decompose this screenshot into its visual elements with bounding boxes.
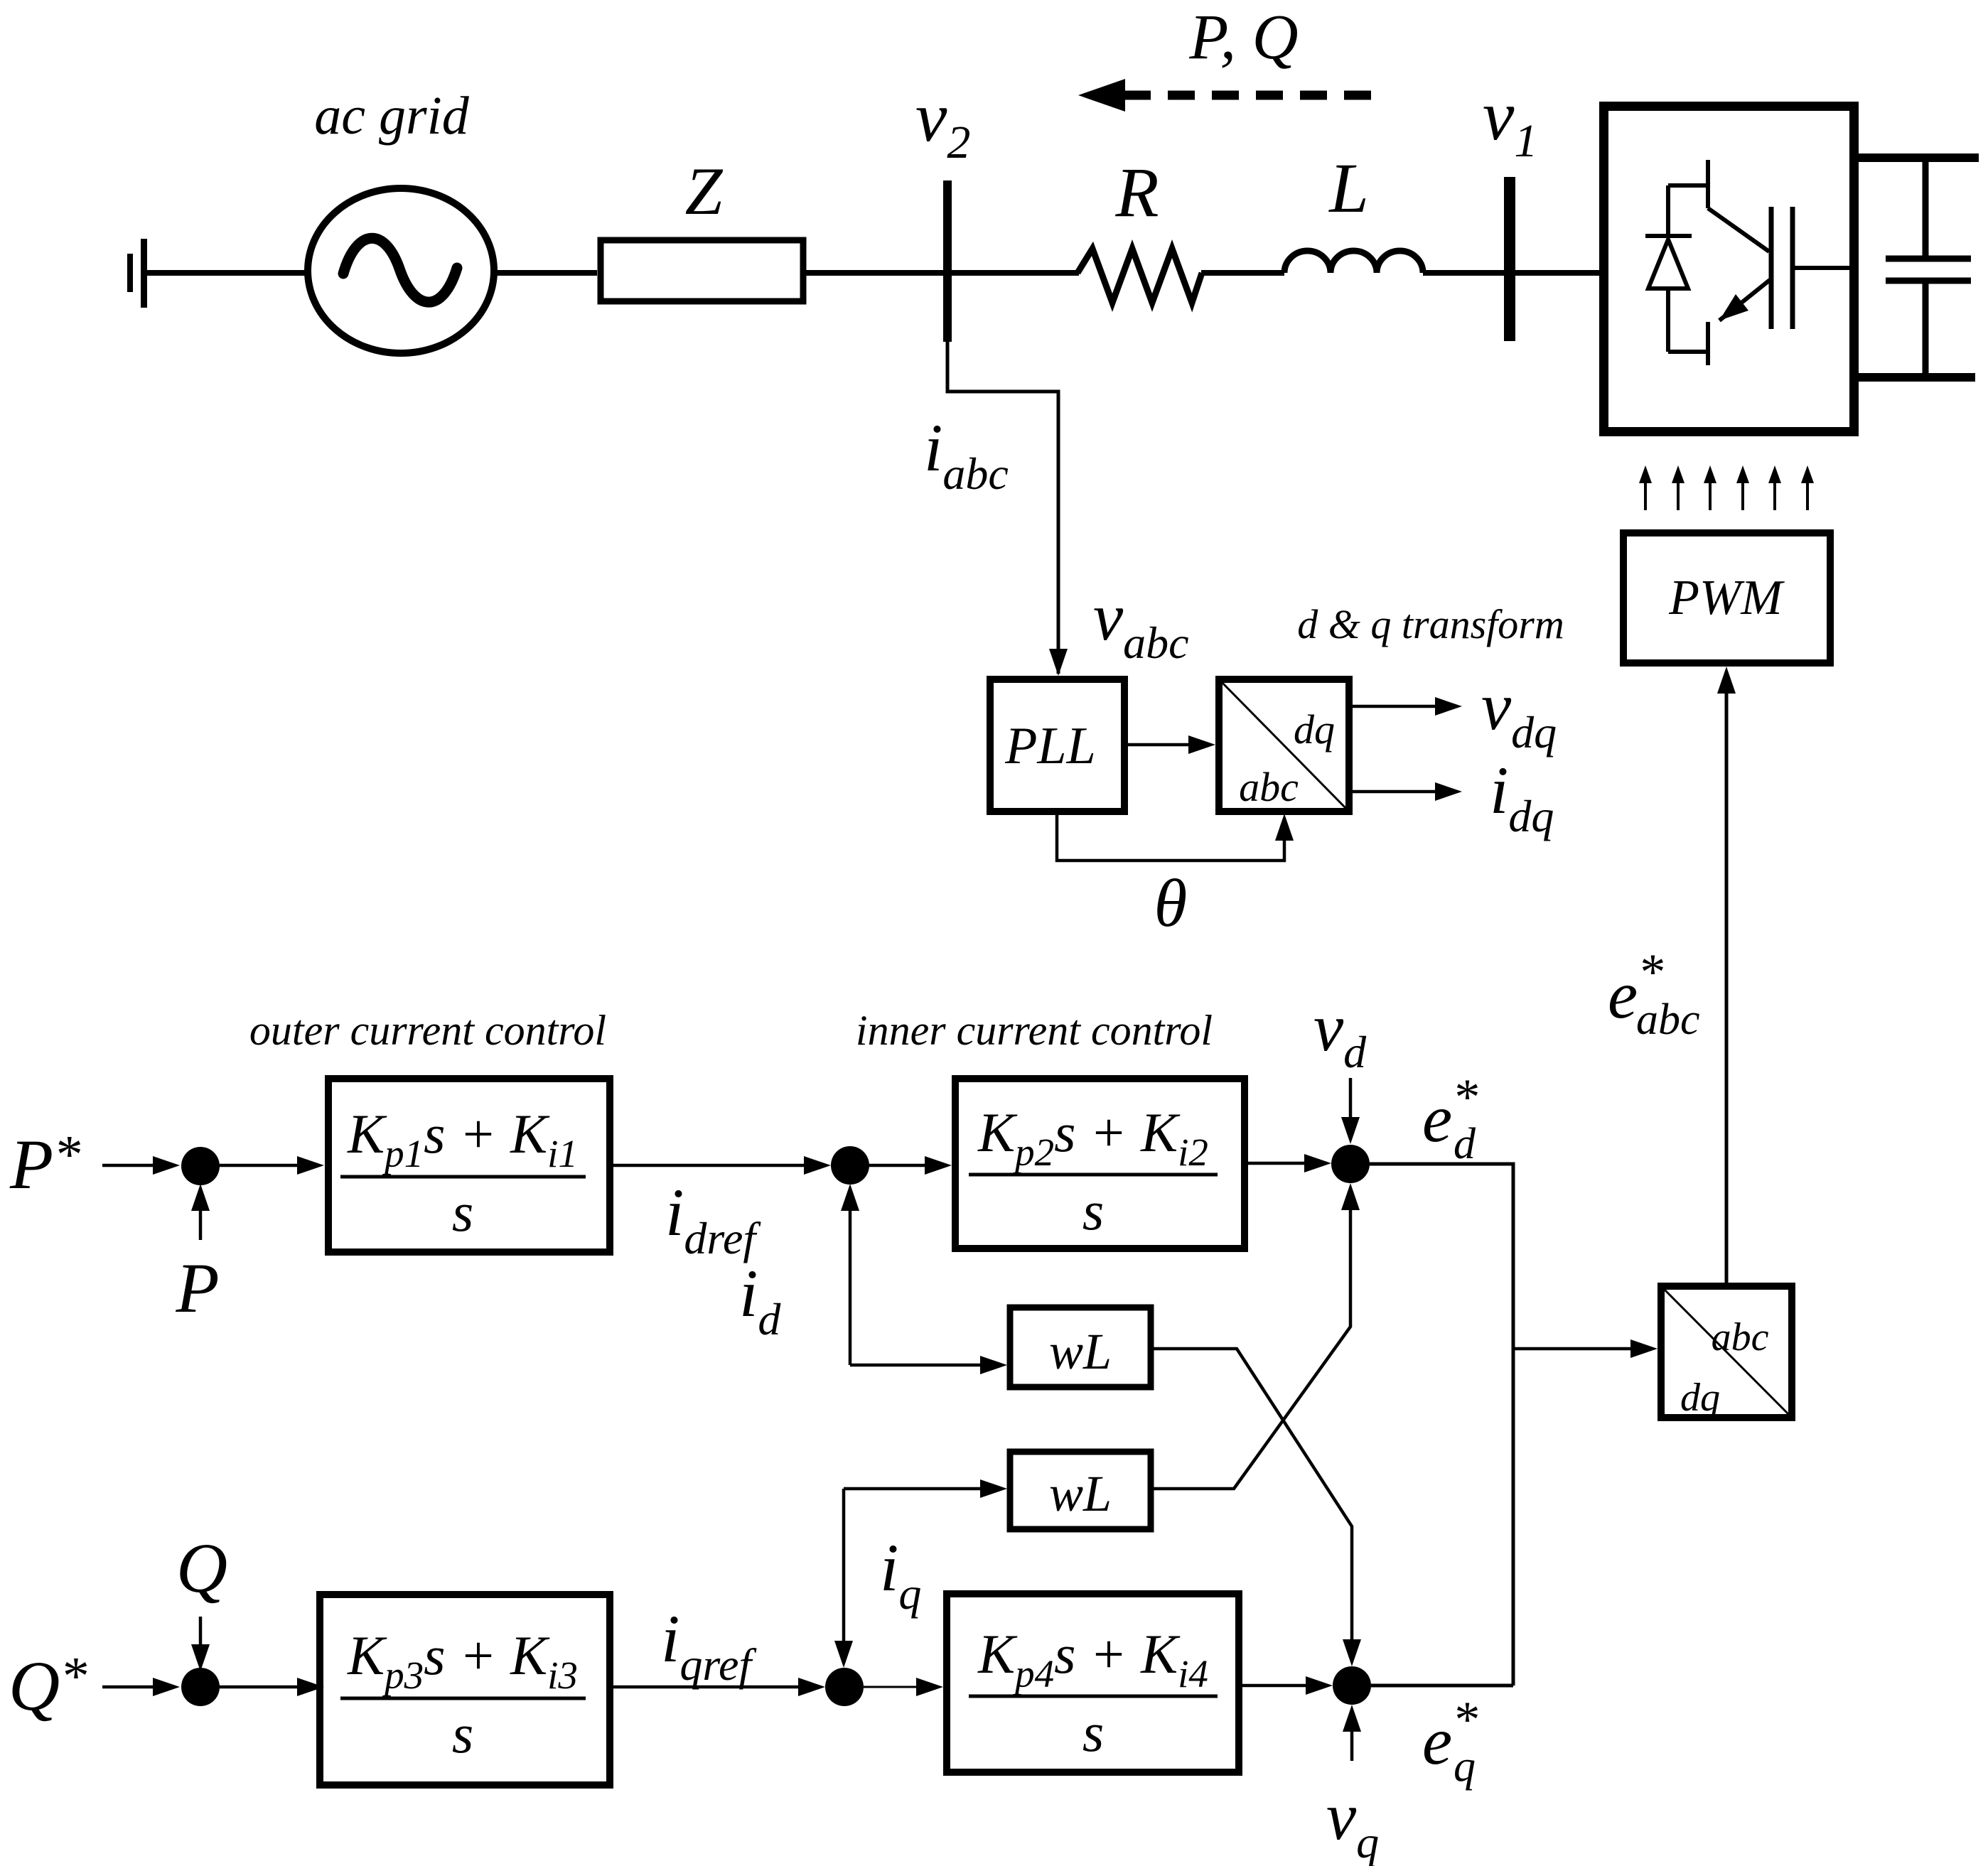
svg-text:inner current control: inner current control: [856, 1007, 1213, 1054]
svg-text:e: e: [1422, 1081, 1452, 1156]
svg-text:PWM: PWM: [1668, 571, 1785, 625]
svg-text:Kp3s + Ki3: Kp3s + Ki3: [347, 1624, 578, 1697]
svg-text:Kp2s + Ki2: Kp2s + Ki2: [977, 1101, 1208, 1174]
svg-text:Kp4s + Ki4: Kp4s + Ki4: [977, 1623, 1208, 1695]
svg-text:dq: dq: [1294, 706, 1335, 753]
svg-text:P: P: [175, 1249, 219, 1327]
svg-text:abc: abc: [1712, 1315, 1769, 1359]
svg-text:d & q transform: d & q transform: [1297, 601, 1564, 647]
svg-text:e: e: [1608, 957, 1638, 1032]
svg-text:*: *: [1452, 1691, 1478, 1748]
svg-text:d: d: [1454, 1120, 1476, 1168]
svg-text:Kp1s + Ki1: Kp1s + Ki1: [347, 1103, 578, 1175]
svg-text:wL: wL: [1049, 1323, 1112, 1380]
svg-text:*: *: [1452, 1069, 1478, 1126]
svg-text:q: q: [1454, 1742, 1476, 1791]
svg-text:wL: wL: [1049, 1465, 1112, 1522]
svg-text:s: s: [1082, 1180, 1104, 1241]
svg-text:s: s: [452, 1703, 473, 1764]
svg-text:s: s: [452, 1181, 473, 1243]
svg-text:abc: abc: [1636, 996, 1700, 1044]
svg-text:*: *: [1638, 944, 1663, 1001]
svg-text:Z: Z: [685, 153, 724, 229]
svg-text:Q: Q: [176, 1528, 227, 1607]
svg-text:L: L: [1328, 149, 1369, 227]
svg-text:outer current control: outer current control: [249, 1007, 606, 1054]
svg-text:R: R: [1114, 153, 1159, 232]
svg-text:dq: dq: [1680, 1376, 1720, 1420]
svg-text:s: s: [1082, 1701, 1104, 1763]
svg-text:P, Q: P, Q: [1188, 2, 1298, 72]
svg-text:ac grid: ac grid: [314, 86, 469, 146]
svg-text:θ: θ: [1154, 865, 1188, 941]
svg-text:abc: abc: [1239, 764, 1299, 810]
svg-text:PLL: PLL: [1004, 717, 1096, 775]
svg-text:e: e: [1422, 1703, 1452, 1779]
